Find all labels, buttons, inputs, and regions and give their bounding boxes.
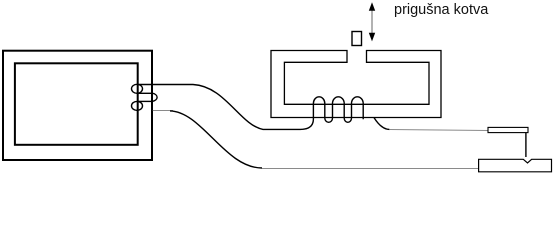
box coil link wire xyxy=(138,92,152,94)
armature plate xyxy=(352,32,362,46)
upper contact bar xyxy=(488,127,528,132)
motion arrow down head xyxy=(369,33,375,42)
motion arrow up head xyxy=(369,2,375,11)
wire A: box coil to core coil with S-bend and winding turns xyxy=(139,85,364,130)
label: prigusna kotva xyxy=(394,1,488,19)
core coil exit bend xyxy=(374,118,389,130)
box coil link wire 2 xyxy=(138,100,152,102)
battery box inner frame xyxy=(15,63,138,145)
electromagnet core yoke with top slot xyxy=(271,51,441,118)
contact connector wire xyxy=(525,133,527,157)
box coil right loop xyxy=(152,93,157,101)
wire B long bottom run (gray) xyxy=(262,168,479,170)
wire B exit segment (gray) xyxy=(153,110,173,112)
core coil exit run to contact (gray) xyxy=(389,130,488,131)
motion arrow shaft xyxy=(371,9,373,35)
box coil loop 1 xyxy=(132,84,143,93)
battery box outer frame xyxy=(3,51,152,160)
lower contact bar with notch xyxy=(479,159,552,172)
box coil loop 2 xyxy=(132,101,143,110)
wire B S-bend xyxy=(170,111,262,168)
